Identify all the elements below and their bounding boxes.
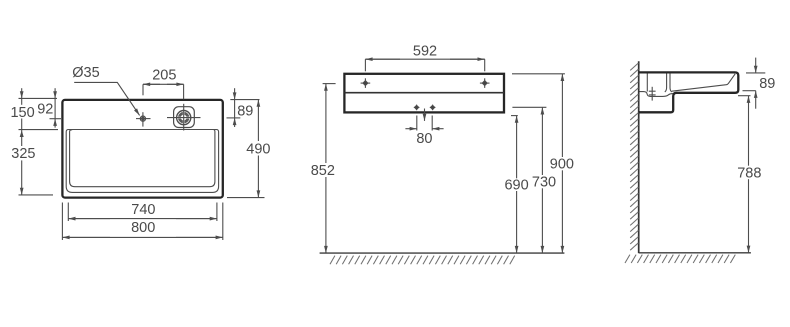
dim 730 — [512, 107, 546, 253]
svg-text:740: 740 — [131, 202, 155, 218]
side view: inner wall vertical — [646, 74, 648, 92]
svg-text:80: 80 — [416, 131, 432, 147]
front view: drain bolt crosses — [414, 105, 436, 111]
dim 690 — [511, 116, 518, 254]
svg-text:800: 800 — [131, 220, 155, 236]
svg-text:150: 150 — [10, 105, 34, 121]
dim 592 — [365, 59, 484, 71]
plan view: washbasin outer rim — [62, 100, 222, 198]
plan view: drain symbol — [167, 104, 201, 131]
dim 89 (side) — [743, 58, 766, 109]
front view: left mounting hole cross — [361, 78, 371, 88]
svg-text:852: 852 — [311, 163, 335, 179]
svg-text:92: 92 — [37, 101, 53, 117]
dim 900 — [512, 74, 565, 253]
dim 205 (faucet to drain) — [143, 84, 184, 99]
svg-text:325: 325 — [11, 146, 35, 162]
dim 740 — [68, 203, 217, 222]
svg-text:592: 592 — [413, 44, 437, 60]
svg-text:730: 730 — [532, 175, 556, 191]
side view: wall line — [638, 61, 640, 253]
plan view: bowl outer contour — [66, 130, 218, 193]
svg-text:690: 690 — [504, 178, 528, 194]
svg-text:490: 490 — [246, 141, 270, 157]
front view: right mounting hole cross — [480, 78, 490, 88]
svg-text:89: 89 — [237, 103, 253, 119]
svg-text:788: 788 — [737, 166, 761, 182]
svg-text:205: 205 — [152, 68, 176, 84]
dim 80 — [405, 116, 443, 131]
plan view: bowl inner contour — [70, 130, 215, 187]
side view: overflow channel — [665, 74, 672, 93]
plan right extension lines — [227, 100, 265, 198]
front view: outlet down arrow — [424, 109, 426, 121]
side view: fixing bolt — [649, 87, 656, 101]
side view: bowl bottom slope — [672, 74, 735, 91]
side view: floor hatching — [625, 255, 735, 263]
side view: ceramic inner contour — [640, 92, 674, 97]
svg-text:Ø35: Ø35 — [72, 65, 99, 81]
front view: floor hatching — [330, 256, 515, 265]
svg-text:900: 900 — [550, 157, 574, 173]
dim 150 — [21, 88, 23, 146]
front view: rim divider line — [344, 92, 504, 94]
dim 325 — [21, 160, 23, 195]
dim 490 — [257, 100, 259, 198]
plan view: faucet hole symbol — [136, 112, 151, 126]
side view: basin profile outline — [639, 72, 739, 112]
dim 92 — [54, 88, 56, 127]
side view: floor line — [639, 252, 751, 254]
front view: floor line — [320, 252, 565, 254]
label D35 with leader — [74, 82, 139, 115]
plan left extension lines — [19, 98, 62, 194]
side view: wall hatching — [630, 63, 638, 250]
svg-text:89: 89 — [759, 76, 775, 92]
dim 852 — [323, 84, 336, 254]
dim 788 — [738, 96, 751, 253]
dim 800 — [62, 203, 222, 241]
dim 89 (plan) — [234, 88, 236, 127]
front view: basin body — [344, 74, 504, 113]
